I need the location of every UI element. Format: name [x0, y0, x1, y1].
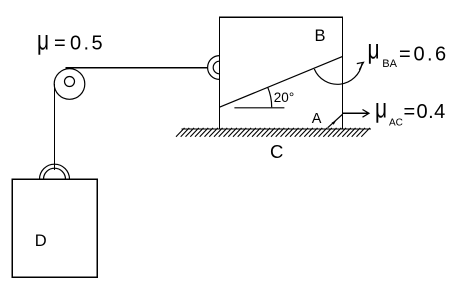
hook outer arc on block D — [40, 164, 70, 179]
svg-text:0.4: 0.4 — [417, 101, 446, 123]
horizontal arrow to muAC — [343, 112, 369, 114]
pulley P2 inner semicircle — [213, 61, 219, 74]
arrowhead of muBA arrow — [357, 62, 364, 70]
svg-text:=: = — [404, 101, 416, 123]
svg-text:μ: μ — [375, 94, 387, 125]
svg-text:=: = — [54, 32, 66, 54]
svg-text:C: C — [270, 141, 283, 162]
arrowhead on leader line — [332, 120, 337, 124]
leader line from A-C interface — [328, 115, 343, 128]
angle reference horizontal line — [234, 107, 284, 109]
ground hatching — [176, 128, 370, 137]
svg-text:B: B — [315, 27, 326, 45]
svg-text:0.5: 0.5 — [70, 32, 105, 54]
pulley P2 outer semicircle on block corner — [208, 56, 220, 80]
wire: horizontal rope segment — [66, 67, 208, 69]
svg-text:BA: BA — [382, 58, 397, 70]
angle arc — [268, 87, 272, 107]
svg-text:AC: AC — [389, 117, 403, 128]
curved arrow to muBA — [314, 64, 362, 85]
svg-text:=: = — [399, 43, 411, 65]
block D rectangle — [12, 179, 97, 277]
svg-text:μ: μ — [368, 35, 380, 66]
ground line C — [182, 128, 372, 130]
hook inner arc on block D — [44, 168, 66, 179]
svg-text:0.6: 0.6 — [414, 43, 449, 65]
svg-text:D: D — [35, 232, 47, 250]
svg-text:μ: μ — [37, 26, 49, 57]
wire: vertical rope segment — [54, 84, 56, 170]
block B/A rectangle — [219, 17, 342, 129]
svg-text:20°: 20° — [274, 90, 294, 105]
svg-text:A: A — [312, 111, 322, 127]
arrowhead of muAC arrow — [363, 110, 370, 118]
incline line between B and A — [220, 56, 343, 107]
pulley P1 inner circle — [65, 77, 75, 87]
pulley P1 outer circle — [54, 69, 85, 100]
